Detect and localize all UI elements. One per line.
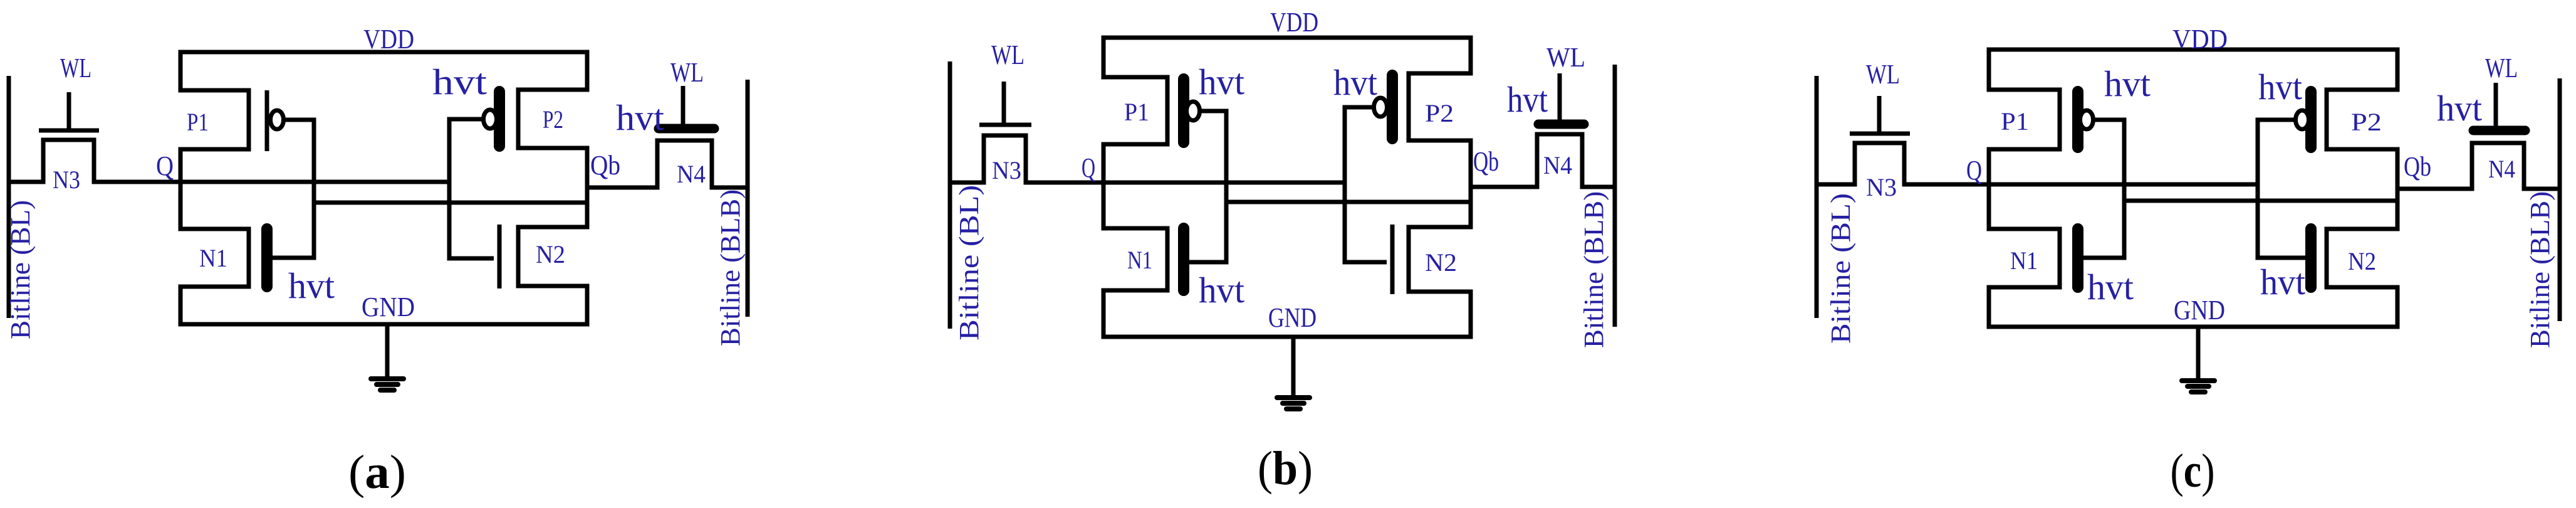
wire Qb cross-couple (a) (314, 201, 587, 205)
node Q wire (b) (1026, 181, 1345, 185)
label Q (a) (156, 151, 174, 181)
label N2 (a) (536, 240, 565, 268)
wire N1 source to GND (c) (1987, 285, 1991, 327)
svg-text:Qb: Qb (1473, 146, 1499, 177)
caption (c) (2171, 445, 2215, 497)
wire gate net of P2 and N2 (b) (1345, 107, 1387, 262)
transistor N4 (b) (1537, 124, 1584, 189)
svg-text:Bitline (BL): Bitline (BL) (5, 200, 36, 339)
svg-text:Q: Q (156, 151, 174, 181)
svg-text:hvt: hvt (616, 97, 664, 138)
label WL left (b) (991, 40, 1025, 70)
wire Qb cross-couple (c) (2124, 199, 2397, 203)
wire VDD rail (b) (1102, 36, 1473, 40)
bitline BL wire (b) (948, 61, 952, 329)
transistor P1 (b) (1102, 77, 1200, 144)
wire VDD to P2 source (b) (1469, 38, 1473, 76)
svg-text:P2: P2 (543, 105, 563, 134)
svg-text:hvt: hvt (432, 61, 487, 102)
wire WL stem right (b) (1558, 73, 1562, 124)
wire gate net of P2 and N2 (c) (2258, 120, 2305, 258)
wire WL stem right (c) (2494, 83, 2498, 130)
label hvt P2 (a) (432, 61, 487, 102)
wire N2 source to GND (c) (2396, 285, 2400, 327)
svg-text:WL: WL (1546, 42, 1585, 73)
transistor N1 (c) (1987, 229, 2078, 287)
label Bitline (BLB) (a) (715, 189, 746, 346)
svg-text:Bitline (BLB): Bitline (BLB) (2525, 191, 2555, 348)
wire BL to N3 (b) (950, 181, 984, 185)
label N1 (a) (199, 244, 227, 272)
svg-text:hvt: hvt (1199, 61, 1244, 102)
svg-text:Bitline (BLB): Bitline (BLB) (1578, 191, 1609, 348)
transistor P1 (c) (1987, 90, 2094, 149)
wire VDD rail (a) (179, 50, 590, 55)
wire GND rail (b) (1102, 335, 1473, 339)
svg-text:WL: WL (991, 40, 1025, 70)
label P2 (a) (543, 105, 563, 134)
ground symbol (c) (2182, 327, 2214, 392)
wire VDD rail (c) (1987, 48, 2400, 52)
svg-text:P1: P1 (187, 108, 209, 136)
svg-text:GND: GND (362, 292, 415, 322)
label Bitline (BL) (b) (954, 185, 984, 341)
ground symbol (a) (371, 324, 404, 390)
bitline BLB wire (b) (1613, 65, 1617, 327)
label Bitline (BL) (c) (1825, 193, 1856, 344)
svg-text:hvt: hvt (2104, 63, 2151, 104)
svg-text:N3: N3 (53, 166, 80, 194)
bitline BL wire (c) (1815, 76, 1819, 318)
svg-text:hvt: hvt (1199, 270, 1244, 310)
wire WL stem left (a) (67, 92, 71, 130)
caption (a) (348, 446, 406, 499)
label WL left (a) (60, 53, 91, 83)
transistor N4 (c) (2472, 130, 2525, 191)
wire WL stem left (c) (1877, 96, 1882, 134)
label N1 (c) (2010, 246, 2038, 275)
wire N4 to BLB (c) (2524, 187, 2560, 191)
transistor P1 (a) (179, 90, 284, 151)
label N4 (a) (677, 160, 706, 188)
wire N1 source to GND (b) (1102, 288, 1106, 337)
label hvt N4 (a) (616, 97, 664, 138)
node Qb wire (a) (587, 186, 657, 190)
transistor N3 (c) (1850, 134, 1910, 187)
label GND (a) (362, 292, 415, 322)
label hvt N1 (b) (1199, 270, 1244, 310)
svg-text:(a): (a) (348, 446, 406, 499)
label N3 (a) (53, 166, 80, 194)
svg-text:Bitline (BL): Bitline (BL) (1825, 193, 1856, 344)
svg-text:hvt: hvt (288, 265, 335, 306)
label hvt P2 (c) (2258, 66, 2302, 107)
label WL left (c) (1866, 59, 1900, 90)
svg-text:P1: P1 (2001, 107, 2029, 135)
wire VDD to P1 source (b) (1102, 38, 1106, 80)
wire N1 source to GND (a) (179, 285, 183, 325)
svg-text:P2: P2 (2351, 108, 2382, 136)
transistor N1 (b) (1102, 228, 1184, 290)
svg-text:Qb: Qb (590, 150, 620, 181)
wire VDD to P1 source (a) (179, 52, 183, 93)
wire N4 to BLB (b) (1582, 185, 1615, 189)
svg-text:Bitline (BLB): Bitline (BLB) (715, 189, 746, 346)
bitline BLB wire (a) (746, 80, 750, 317)
svg-text:WL: WL (2485, 53, 2518, 83)
label N4 (b) (1543, 151, 1572, 179)
transistor P2 (a) (484, 90, 590, 148)
svg-text:GND: GND (2174, 295, 2225, 325)
svg-text:VDD: VDD (1270, 7, 1318, 38)
svg-text:hvt: hvt (1333, 62, 1377, 103)
svg-text:N4: N4 (677, 160, 706, 188)
svg-text:P2: P2 (1425, 99, 1454, 127)
svg-text:hvt: hvt (2260, 262, 2305, 302)
label P1 (b) (1124, 98, 1149, 126)
svg-text:N4: N4 (2488, 155, 2515, 183)
label VDD (a) (363, 24, 414, 55)
label VDD (b) (1270, 7, 1318, 38)
label N4 (c) (2488, 155, 2515, 183)
svg-text:N4: N4 (1543, 151, 1572, 179)
wire gate net of P1 and N1 (c) (2083, 120, 2124, 258)
ground symbol (b) (1277, 337, 1310, 409)
svg-text:N1: N1 (2010, 246, 2038, 275)
wire Qb cross-couple (b) (1226, 200, 1471, 204)
svg-text:VDD: VDD (363, 24, 414, 55)
wire P1 drain to N1 drain node Q (b) (1102, 144, 1106, 228)
svg-text:(c): (c) (2171, 445, 2215, 497)
node Qb wire (b) (1471, 185, 1537, 189)
label P2 (c) (2351, 108, 2382, 136)
wire P2 drain to N2 drain node Qb (a) (585, 148, 590, 227)
label WL right (b) (1546, 42, 1585, 73)
svg-text:hvt: hvt (2437, 88, 2482, 129)
svg-text:WL: WL (670, 57, 704, 88)
transistor P2 (c) (2296, 90, 2400, 149)
wire N4 to BLB (a) (712, 186, 748, 190)
label GND (c) (2174, 295, 2225, 325)
transistor N3 (b) (979, 125, 1031, 185)
label P1 (a) (187, 108, 209, 136)
transistor N1 (a) (179, 229, 268, 287)
svg-text:Qb: Qb (2404, 151, 2431, 182)
label Bitline (BLB) (b) (1578, 191, 1609, 348)
label N2 (b) (1425, 248, 1457, 277)
wire WL stem left (b) (1002, 82, 1006, 125)
wire BL to N3 (c) (1817, 183, 1855, 187)
wire BL to N3 (a) (9, 180, 43, 184)
label Q (c) (1966, 155, 1982, 186)
wire P2 drain to N2 drain node Qb (c) (2396, 149, 2400, 229)
wire gate net of P2 and N2 (a) (449, 119, 494, 258)
label P1 (c) (2001, 107, 2029, 135)
svg-text:hvt: hvt (2258, 66, 2302, 107)
label N3 (b) (992, 156, 1021, 184)
label Qb (a) (590, 150, 620, 181)
svg-text:P1: P1 (1124, 98, 1149, 126)
transistor N4 (a) (657, 129, 714, 190)
svg-text:GND: GND (1268, 302, 1317, 333)
label WL right (c) (2485, 53, 2518, 83)
label Bitline (BL) (a) (5, 200, 36, 339)
wire VDD to P2 source (a) (585, 52, 590, 92)
label Bitline (BLB) (c) (2525, 191, 2555, 348)
label N3 (c) (1866, 173, 1897, 201)
label VDD (c) (2172, 24, 2228, 55)
wire VDD to P2 source (c) (2396, 50, 2400, 92)
transistor N2 (a) (499, 225, 590, 288)
caption (b) (1258, 442, 1313, 495)
svg-text:N2: N2 (2348, 247, 2376, 275)
svg-text:Q: Q (1082, 152, 1095, 183)
label hvt P1 (b) (1199, 61, 1244, 102)
wire P2 drain to N2 drain node Qb (b) (1469, 140, 1473, 227)
bitline BLB wire (c) (2558, 78, 2562, 321)
node Qb wire (c) (2397, 187, 2472, 191)
svg-text:VDD: VDD (2172, 24, 2228, 55)
svg-text:N1: N1 (199, 244, 227, 272)
svg-text:Q: Q (1966, 155, 1982, 186)
label hvt P2 (b) (1333, 62, 1377, 103)
wire N2 source to GND (a) (585, 284, 590, 325)
label Q (b) (1082, 152, 1095, 183)
svg-text:N3: N3 (992, 156, 1021, 184)
label GND (b) (1268, 302, 1317, 333)
label hvt N4 (b) (1507, 79, 1548, 120)
transistor N2 (c) (2311, 229, 2400, 287)
label N1 (b) (1127, 246, 1152, 274)
svg-text:N1: N1 (1127, 246, 1152, 274)
svg-text:hvt: hvt (2087, 267, 2134, 307)
transistor N3 (a) (39, 130, 99, 184)
label N2 (c) (2348, 247, 2376, 275)
wire P1 drain to N1 drain node Q (a) (179, 149, 183, 229)
wire WL stem right (a) (681, 86, 686, 129)
wire P1 drain to N1 drain node Q (c) (1987, 149, 1991, 229)
wire gate net of P1 and N1 (b) (1189, 111, 1226, 262)
node Q wire (c) (1904, 183, 2258, 187)
label hvt N2 (c) (2260, 262, 2305, 302)
transistor P2 (b) (1374, 73, 1473, 140)
label hvt N4 (c) (2437, 88, 2482, 129)
wire N2 source to GND (b) (1469, 290, 1473, 337)
transistor N2 (b) (1392, 225, 1473, 294)
wire gate net of P1 and N1 (a) (273, 120, 314, 258)
bitline BL wire (a) (7, 76, 11, 318)
label P2 (b) (1425, 99, 1454, 127)
svg-text:WL: WL (1866, 59, 1900, 90)
label hvt N1 (c) (2087, 267, 2134, 307)
label Qb (b) (1473, 146, 1499, 177)
wire GND rail (c) (1987, 325, 2400, 329)
wire VDD to P1 source (c) (1987, 50, 1991, 92)
svg-text:hvt: hvt (1507, 79, 1548, 120)
label hvt P1 (c) (2104, 63, 2151, 104)
label WL right (a) (670, 57, 704, 88)
svg-text:WL: WL (60, 53, 91, 83)
label hvt N1 (a) (288, 265, 335, 306)
svg-text:N3: N3 (1866, 173, 1897, 201)
svg-text:N2: N2 (1425, 248, 1457, 277)
svg-text:N2: N2 (536, 240, 565, 268)
label Qb (c) (2404, 151, 2431, 182)
svg-text:(b): (b) (1258, 442, 1313, 495)
node Q wire (a) (94, 180, 449, 184)
wire GND rail (a) (179, 322, 590, 327)
svg-text:Bitline (BL): Bitline (BL) (954, 185, 984, 341)
